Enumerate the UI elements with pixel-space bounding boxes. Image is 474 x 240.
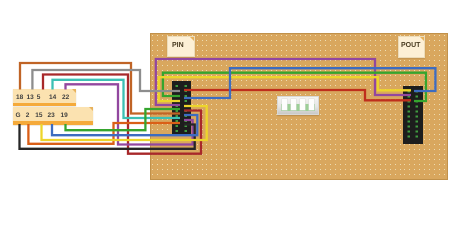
wire 15 yellow bbox=[42, 106, 207, 140]
perfboard bbox=[150, 33, 448, 180]
wire 14 cyan bbox=[53, 80, 181, 118]
header PIN (2x10) bbox=[172, 81, 191, 135]
wire 5 dark red bbox=[43, 75, 201, 154]
note PIN bbox=[167, 36, 195, 57]
wire bus blue PIN->POUT bbox=[184, 68, 435, 98]
wire G black bbox=[20, 124, 195, 149]
wire 22 purple bbox=[66, 84, 193, 144]
wire 19 green bbox=[66, 109, 181, 130]
wire 13 gray bbox=[32, 70, 180, 91]
header POUT (2x10) bbox=[403, 86, 423, 144]
DIP switch S1 bbox=[277, 96, 319, 115]
wire 2 vermilion bbox=[28, 123, 180, 144]
label L2 (pins G 2 15 23 19) bbox=[13, 107, 93, 125]
wire bus purple PIN->POUT bbox=[156, 59, 411, 105]
wire bus yellow PIN->POUT bbox=[159, 77, 411, 101]
wire bus red PIN->POUT bbox=[184, 90, 411, 100]
wire 18 brown bbox=[20, 63, 180, 114]
label L1 (pins 18 13 5 14 22) bbox=[13, 89, 76, 106]
wire bus green PIN->POUT bbox=[163, 73, 426, 101]
note POUT bbox=[398, 36, 425, 58]
wire 23 blue bbox=[52, 115, 197, 135]
